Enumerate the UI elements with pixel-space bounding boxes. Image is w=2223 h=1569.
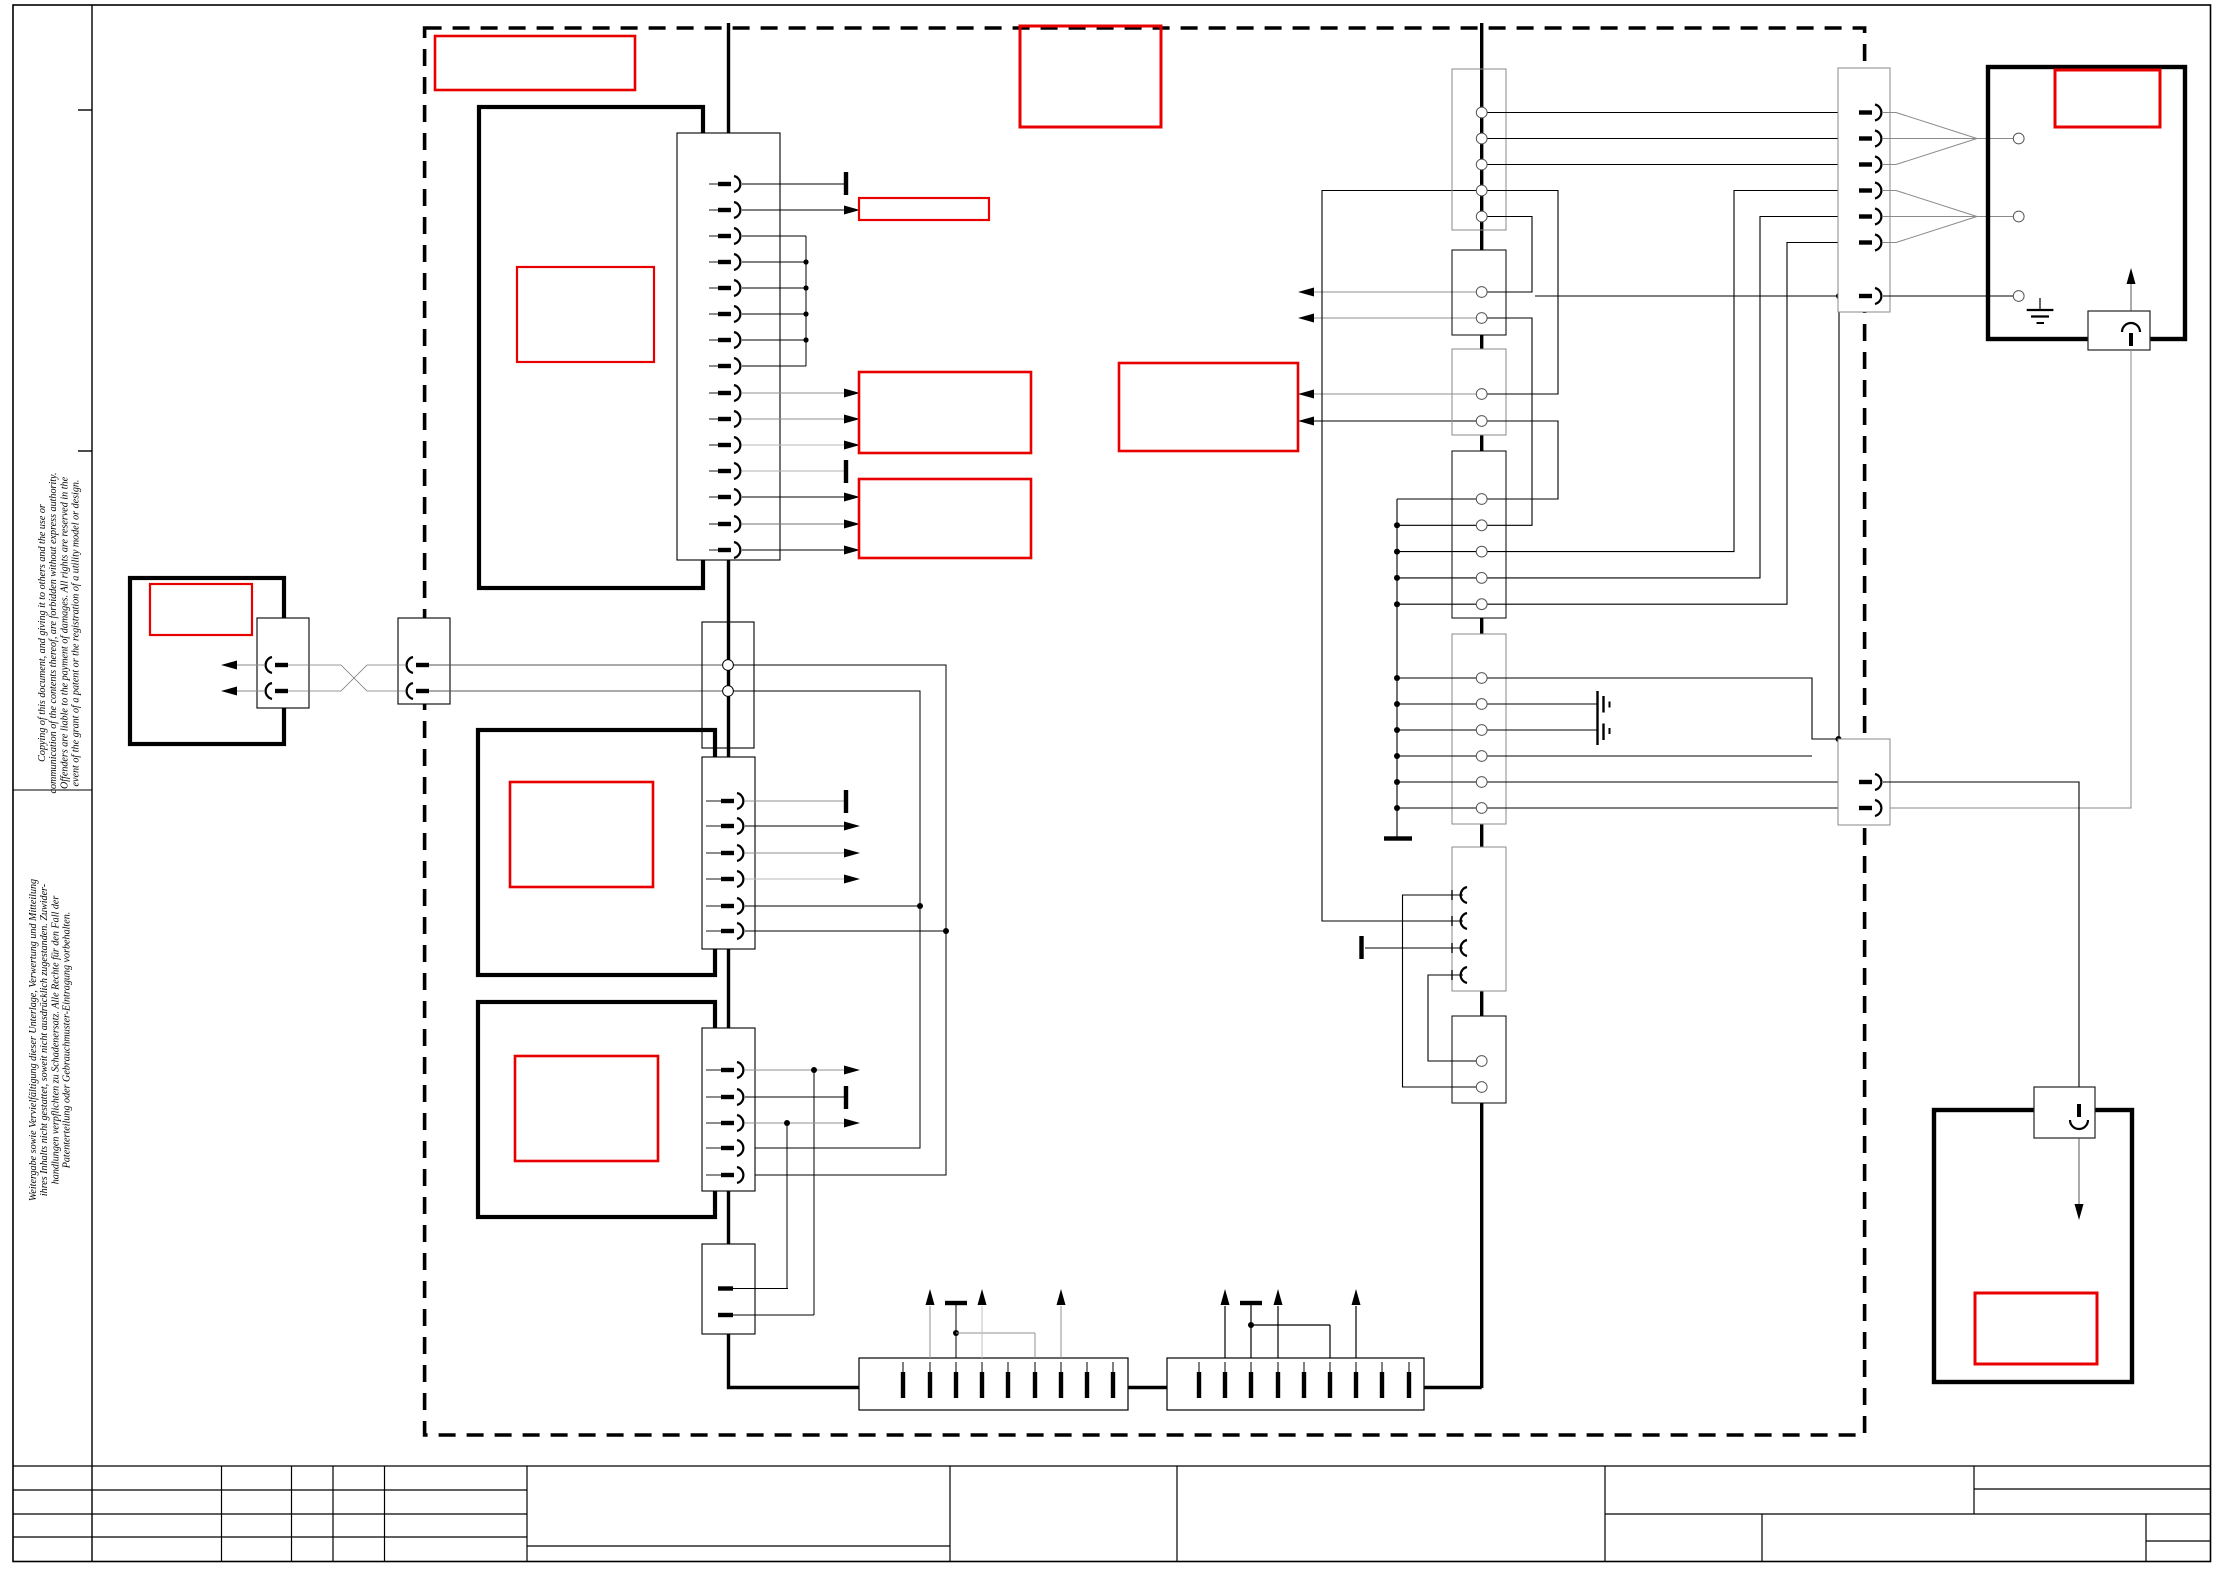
connector X6 pin 4 [706, 1147, 721, 1149]
TS2 wire up with arrow (pin7) [1355, 1306, 1357, 1358]
connector XR1 pin 1 [1859, 110, 1872, 114]
connector XF body [1452, 1016, 1506, 1103]
sidebar separator line [91, 5, 93, 1562]
connector X7 pin 2 [718, 1313, 733, 1317]
wire X1.11 with arrow [742, 444, 845, 446]
wire B2 to D2 detour [1482, 318, 1532, 525]
device E3 control unit box [478, 1002, 715, 1217]
internal bus of pins 3-8 [805, 236, 807, 366]
title block frame [13, 1466, 2211, 1562]
merged sensor wires (group 2) [1883, 191, 2013, 243]
connector X1 pin 7 [709, 339, 718, 341]
connector X2a body [257, 618, 309, 708]
connector XR1 pin 2 [1859, 136, 1872, 140]
connector X2b pin 1 [407, 657, 413, 673]
ground bus terminator bar [1384, 836, 1412, 840]
redacted label box (middle) [1119, 363, 1298, 451]
terminal strip TS2 body [1167, 1358, 1424, 1410]
wire D1 row [1397, 498, 1482, 500]
redacted destination label (X1.9-11) [859, 372, 1031, 453]
connector X1 pin 3 [709, 235, 718, 237]
connector X5 pin 6 [706, 930, 721, 932]
connector X6 pin 2 [706, 1096, 721, 1098]
connector X2a pin 2 [266, 683, 272, 699]
merge node circle 2 [2013, 211, 2024, 222]
wire X1 pin row 288 [742, 287, 806, 289]
wire D2 row [1397, 524, 1482, 526]
connector XR1 pin 7 [1859, 294, 1872, 298]
ground wire into device D1 [1883, 295, 2013, 297]
wire to arrow (CAN-L into E4) [237, 690, 264, 692]
terminal C2 [1476, 416, 1487, 427]
terminal A1 [1476, 107, 1487, 118]
junction node [803, 337, 808, 342]
connector X2a pin 1 [266, 657, 272, 673]
wire X6.3 with branch and arrow [745, 1122, 845, 1124]
ground wire XR1 pin7 [1535, 295, 1859, 297]
TS1 terminal pin 1 [902, 1362, 904, 1374]
connector X1 pin 4 [709, 261, 718, 263]
wire X1.1 to terminator [742, 183, 846, 185]
connector XR3 socket symbol [2122, 323, 2140, 332]
wire D5 row to XR1 pin6 [1397, 243, 1859, 605]
wire X1 pin row 262 [742, 261, 806, 263]
wire to arrow row C1 [1314, 393, 1482, 395]
connector XR2 body [1838, 739, 1890, 825]
device E1 redacted label [517, 267, 654, 362]
wire XR2 pin1 to XR4 [1883, 782, 2079, 1087]
connector X2b body [398, 618, 450, 704]
connector XG pin 4 symbol [1451, 970, 1453, 980]
connector X1 pin 5 [709, 287, 718, 289]
junction node [803, 311, 808, 316]
long signal wire (A4 feed) [1322, 191, 1482, 922]
TS1 wire up with arrow (pin2) [929, 1306, 931, 1358]
terminal E5 [1476, 777, 1487, 788]
wire X1.12 to terminator [742, 470, 846, 472]
TS1 terminal pin 8 [1086, 1362, 1088, 1374]
TS1 terminal pin 2 [929, 1362, 931, 1374]
wire D4 row to XR1 pin5 [1397, 217, 1859, 578]
fold tick marks [78, 109, 92, 111]
wire X2b.1 to junction X3 [429, 664, 722, 666]
X3 terminal 2 [723, 686, 734, 697]
junction connector X3 body [702, 622, 754, 748]
connector XG pin 4 wire to F1 [1428, 975, 1482, 1061]
connector XG pin 1 wire to F2 [1403, 895, 1482, 1087]
device D2 redacted label [1975, 1293, 2097, 1364]
connector X1 pin 9 [709, 392, 718, 394]
terminal D1 [1476, 494, 1487, 505]
terminal D3 [1476, 546, 1487, 557]
connector XE body [1452, 634, 1506, 824]
connector X5 pin 2 [706, 825, 721, 827]
wire E6 row to XR2 pin2 [1397, 807, 1859, 809]
terminal A4 [1476, 185, 1487, 196]
connector X1 pin 6 [709, 313, 718, 315]
terminal D5 [1476, 599, 1487, 610]
twisted pair crossover wires [288, 665, 406, 691]
wire X5.6 to X3 drop [745, 930, 946, 932]
wire A2 to XR1 pin 2 [1482, 138, 1859, 140]
wire X7.2 [733, 1314, 814, 1316]
junction node [803, 259, 808, 264]
terminal C1 [1476, 389, 1487, 400]
terminal F2 [1476, 1082, 1487, 1093]
wire A3 to XR1 pin 3 [1482, 164, 1859, 166]
sidebar text divider [13, 789, 92, 791]
supply wire from XR3 down [1883, 350, 2131, 808]
wire E5 row to XR2 pin1 [1397, 781, 1859, 783]
TS2 terminal pin 3 [1250, 1362, 1252, 1374]
wire X1 pin row 314 [742, 313, 806, 315]
device E4 redacted label [150, 584, 252, 635]
device E4 box (CAN node) [130, 578, 284, 744]
wire D3 row to XR1 pin4 [1397, 191, 1859, 552]
connector X1 pin 1 [709, 183, 718, 185]
earth ground symbol in D1 [2039, 298, 2041, 310]
wire X5.3 with arrow [745, 852, 845, 854]
svg-text:communication of the contents: communication of the contents thereof, a… [48, 473, 59, 794]
connector X1 pin 2 [709, 209, 718, 211]
connector X6 body [702, 1028, 755, 1191]
connector XR2 pin 2 [1859, 806, 1872, 810]
TS1 terminator T-bar (pin3) [955, 1305, 957, 1358]
TS2 terminator T-bar (pin3) [1250, 1305, 1252, 1358]
connector X5 pin 1 [706, 800, 721, 802]
connector X6 pin 5 [706, 1174, 721, 1176]
wire C2 to D1 detour [1482, 421, 1558, 499]
main power bus wire (left) [729, 23, 860, 1388]
wire X1.15 with arrow [742, 549, 845, 551]
TS1 wire up with arrow (pin7) [1060, 1306, 1062, 1358]
connector XR1 body [1838, 68, 1890, 312]
wire E1 row (ground net) [1397, 678, 1838, 739]
connector XG pin 2 symbol [1451, 916, 1453, 926]
connector XR1 pin 3 [1859, 162, 1872, 166]
TS2 jog wire to pin6 [1251, 1324, 1330, 1326]
connector X5 pin 4 [706, 878, 721, 880]
device E3 redacted label [515, 1056, 658, 1161]
TS1 terminal pin 7 [1060, 1362, 1062, 1374]
TS2 wire up with arrow (pin2) [1224, 1306, 1226, 1358]
copyright notice (german) [28, 879, 73, 1201]
device E1 control unit box [479, 107, 703, 588]
connector XR1 pin 5 [1859, 214, 1872, 218]
wire X6.1 with branch and arrow [745, 1069, 845, 1071]
wire X5.4 with arrow [745, 878, 845, 880]
wire A1 to XR1 pin 1 [1482, 112, 1859, 114]
connector XG pin 1 symbol [1451, 890, 1453, 900]
terminal D4 [1476, 573, 1487, 584]
connector XR3 body (on D1) [2088, 311, 2150, 350]
TS2 terminal pin 1 [1198, 1362, 1200, 1374]
wire A4 to C1 detour [1482, 191, 1558, 395]
wire X1.2 with arrow [742, 209, 845, 211]
TS1 terminal pin 3 [955, 1362, 957, 1374]
main power bus wire (right) [1480, 23, 1483, 1388]
wire X1 pin row 366 [742, 365, 806, 367]
wire X3.2 routing right/down [733, 691, 920, 1148]
wire to arrow row C2 [1314, 420, 1482, 422]
ground node circle [2013, 291, 2024, 302]
TS2 terminal pin 5 [1303, 1362, 1305, 1374]
TS1 terminal pin 5 [1007, 1362, 1009, 1374]
connector X1 pin 14 [709, 523, 718, 525]
junction node [803, 285, 808, 290]
connector XG body [1452, 847, 1506, 991]
branch down to X7 [786, 1123, 788, 1289]
connector XR1 pin 4 [1859, 188, 1872, 192]
connector XR2 pin 1 [1859, 780, 1872, 784]
terminal E3 [1476, 725, 1487, 736]
wire A5 to B1 detour [1482, 217, 1532, 293]
TS1 terminal pin 4 [981, 1362, 983, 1374]
connector XB body [1452, 250, 1506, 335]
svg-text:ihres Inhalts nicht gestattet,: ihres Inhalts nicht gestattet, soweit ni… [39, 884, 50, 1196]
connector X1 pin 13 [709, 496, 718, 498]
merge node circle 1 [2013, 133, 2024, 144]
device E2 control unit box [478, 730, 715, 975]
TS2 terminal pin 6 [1329, 1362, 1331, 1374]
terminal E6 [1476, 803, 1487, 814]
svg-text:Copying of this document, and: Copying of this document, and giving it … [37, 504, 48, 762]
wire E4 row (ground net) [1397, 755, 1812, 757]
up arrow inside D1 [2130, 284, 2132, 350]
wire X5.1 to terminator [745, 800, 846, 802]
device E2 redacted label [510, 782, 653, 887]
connector X1 pin 11 [709, 444, 718, 446]
svg-text:Offenders are liable to the pa: Offenders are liable to the payment of d… [59, 476, 70, 789]
device D2 box [1934, 1110, 2132, 1382]
TS1 jog wire to pin6 [956, 1332, 1035, 1334]
svg-text:Patenterteilung oder Gebrauchm: Patenterteilung oder Gebrauchmuster-Eint… [62, 912, 73, 1170]
wire to arrow row B2 [1314, 317, 1482, 319]
TS2 terminal pin 4 [1277, 1362, 1279, 1374]
wire X3.1 routing right/down [733, 665, 946, 1175]
wire X5.5 to X3 drop [745, 905, 920, 907]
terminal E1 [1476, 673, 1487, 684]
connector X2b pin 2 [407, 683, 413, 699]
wire X1.13 with arrow [742, 496, 845, 498]
connector X1 body [677, 133, 780, 560]
redacted reference label (top middle) [1020, 26, 1161, 127]
terminal strip TS1 body [859, 1358, 1128, 1410]
wire E2 row to chassis ground [1397, 703, 1598, 705]
wire X6.2 to terminator [745, 1096, 846, 1098]
connector X1 pin 8 [709, 365, 718, 367]
connector XD body [1452, 451, 1506, 618]
terminal D2 [1476, 520, 1487, 531]
connector X7 body [702, 1244, 755, 1334]
terminal A3 [1476, 159, 1487, 170]
connector XR4 body (on D2) [2034, 1087, 2095, 1138]
wire X1 pin row 236 [742, 235, 806, 237]
TS1 terminal pin 9 [1112, 1362, 1114, 1374]
redacted reference label (top left) [435, 36, 635, 90]
ground bus wire [1396, 499, 1398, 838]
TS1 wire up with arrow (pin4) [981, 1306, 983, 1358]
redacted destination label (X1.13-15) [859, 479, 1031, 558]
connector XR4 socket symbol [2077, 1104, 2081, 1117]
wire X1.9 with arrow [742, 392, 845, 394]
ground drop to XR2 [1838, 296, 1840, 739]
copyright notice (english) [37, 473, 82, 794]
thick link TS1-TS2 [1128, 1386, 1167, 1389]
wire X1.14 with arrow [742, 523, 845, 525]
terminal A5 [1476, 211, 1487, 222]
connector X5 pin 3 [706, 852, 721, 854]
TS2 terminal pin 8 [1381, 1362, 1383, 1374]
terminal E4 [1476, 751, 1487, 762]
connector XA body [1452, 69, 1506, 230]
wire X2b.2 to junction X3 [429, 690, 722, 692]
X3 terminal 1 [723, 660, 734, 671]
svg-text:Weitergabe sowie Vervielfältig: Weitergabe sowie Vervielfältigung dieser… [28, 879, 39, 1201]
merged sensor wires (group 1) [1883, 113, 2013, 165]
terminal A2 [1476, 133, 1487, 144]
connector X7 pin 1 [718, 1286, 733, 1290]
terminal B1 [1476, 287, 1487, 298]
connector X6 pin 1 [706, 1069, 721, 1071]
wire X1 pin row 340 [742, 339, 806, 341]
wire to arrow (CAN-H into E4) [237, 664, 264, 666]
connector X5 body [702, 757, 755, 949]
branch down to X7 [813, 1070, 815, 1315]
thick wire TS2 to right bus [1424, 1386, 1482, 1389]
connector XC body [1452, 349, 1506, 435]
connector X6 pin 3 [706, 1122, 721, 1124]
TS2 wire up with arrow (pin4) [1277, 1306, 1279, 1358]
device D1 redacted label [2055, 70, 2160, 127]
svg-text:handlungen verpflichten zu Sch: handlungen verpflichten zu Schadenersatz… [50, 896, 61, 1185]
device D1 box [1988, 67, 2185, 339]
TS2 terminal pin 2 [1224, 1362, 1226, 1374]
connector X1 pin 12 [709, 470, 718, 472]
terminal E2 [1476, 699, 1487, 710]
wire X5.2 with arrow [745, 825, 845, 827]
dashed wiring-harness boundary frame [425, 28, 1865, 1435]
TS2 terminal pin 9 [1408, 1362, 1410, 1374]
connector X1 pin 15 [709, 549, 718, 551]
wire to arrow row B1 [1314, 291, 1482, 293]
connector X5 pin 5 [706, 905, 721, 907]
wire X1.10 with arrow [742, 418, 845, 420]
down arrow inside D2 [2078, 1138, 2080, 1204]
TS1 terminal pin 6 [1034, 1362, 1036, 1374]
connector XG pin 3 terminator [1365, 947, 1463, 949]
TS2 terminal pin 7 [1355, 1362, 1357, 1374]
connector XG pin 3 symbol [1451, 943, 1453, 953]
terminal F1 [1476, 1056, 1487, 1067]
wire X7.1 [733, 1288, 788, 1290]
terminal B2 [1476, 313, 1487, 324]
connector X1 pin 10 [709, 418, 718, 420]
chassis ground symbol (double) [1596, 691, 1598, 745]
redacted destination label (X1.2) [859, 198, 989, 220]
svg-text:event of the grant of a patent: event of the grant of a patent or the re… [71, 480, 82, 787]
connector XR1 pin 6 [1859, 240, 1872, 244]
wire E3 row to chassis ground [1397, 729, 1598, 731]
